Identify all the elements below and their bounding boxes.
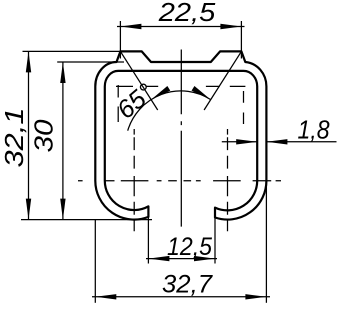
vertical centerline [180,50,182,227]
angle dimension 65 degrees [112,51,241,130]
dimension 32,7 bottom overall [92,181,270,303]
svg-text:22,5: 22,5 [158,0,217,27]
left curl center vertical centerline [133,129,135,231]
svg-text:12,5: 12,5 [167,233,212,261]
right corner center vertical dash line [243,91,245,124]
svg-text:1,8: 1,8 [298,117,331,145]
svg-text:30: 30 [29,119,59,153]
svg-text:65°: 65° [112,78,160,124]
left corner center vertical dash line [117,85,119,122]
svg-text:32,1: 32,1 [1,108,29,168]
dimension 32,1 left [1,51,152,219]
profile cross-section outline [95,51,266,219]
horizontal centerline [78,180,281,182]
right curl center vertical centerline [227,129,229,231]
right corner center horizontal dash line [206,85,246,87]
svg-text:32,7: 32,7 [162,270,213,298]
dimension 1,8 wall thickness [222,117,337,145]
dimension 30 left inner [29,62,125,220]
left corner center horizontal dash line [116,85,158,87]
dimension 12,5 bottom opening [146,217,217,264]
dimension 22,5 top [117,0,245,59]
